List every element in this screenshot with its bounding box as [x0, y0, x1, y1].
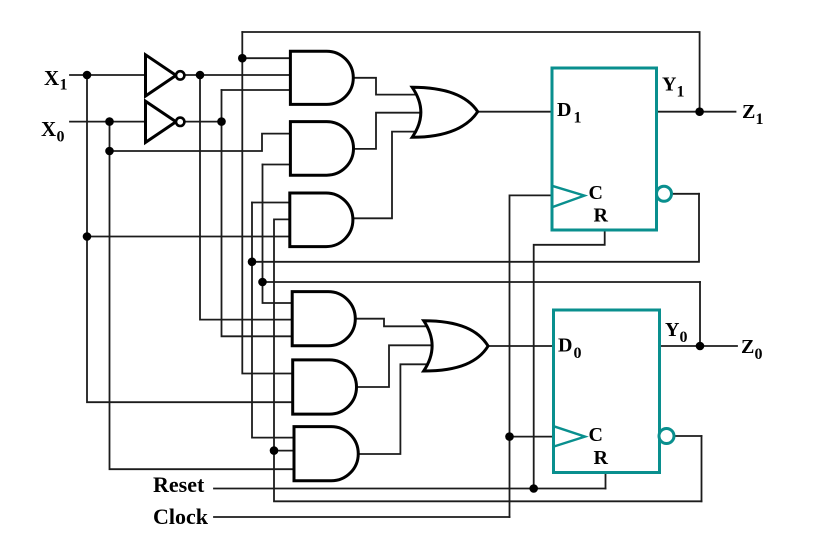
- wire: OR1 output to D1: [478, 111, 552, 113]
- wire: FF1 R connection: [534, 230, 605, 489]
- FF1 clock triangle: [552, 186, 584, 208]
- FF1 Qbar bubble: [657, 186, 672, 201]
- wire: X0 vertical column to AND6 in3: [110, 122, 295, 470]
- wire: Reset line: [214, 488, 606, 490]
- wire: FF1 Qbar bubble lead: [673, 193, 700, 195]
- wire: NOT-X0 column: [222, 90, 293, 336]
- wire: AND5 output to OR2: [357, 345, 445, 387]
- wire: X1 tap to AND3 in3: [87, 236, 290, 238]
- svg-text:0: 0: [755, 346, 763, 363]
- wire: NOT-X1 column to AND4 in2: [200, 75, 292, 320]
- junction: NOT-X0 tap: [217, 117, 226, 126]
- wire: X1 vertical column: [87, 75, 293, 402]
- wire: clock tap to FF0 C: [510, 436, 554, 438]
- junction: X1 to AND3: [83, 232, 92, 241]
- wire: AND2 output to OR1: [354, 113, 434, 149]
- wire: Y0 output to Z0: [660, 345, 738, 347]
- svg-text:X: X: [44, 66, 59, 90]
- AND gate A6: [294, 427, 358, 481]
- wire: Y0 feedback run: [263, 281, 701, 283]
- svg-text:Y: Y: [662, 74, 677, 96]
- inverter (X0): [146, 101, 177, 142]
- junction: NOT-Y1: [248, 258, 257, 267]
- junction: X1 tap: [83, 71, 92, 80]
- svg-text:C: C: [589, 424, 603, 446]
- FF0 Qbar bubble: [659, 429, 674, 444]
- wire: Y0 to AND2 in2: [263, 164, 291, 166]
- wire: X1 input lead: [70, 74, 145, 76]
- junction: clock to FF0: [505, 432, 514, 441]
- AND gate A4: [292, 292, 355, 346]
- svg-text:0: 0: [680, 329, 688, 346]
- OR gate O2: [424, 321, 488, 371]
- svg-text:0: 0: [57, 128, 65, 145]
- svg-text:Clock: Clock: [153, 504, 209, 529]
- wire: AND3 output to OR1: [353, 132, 433, 219]
- svg-text:1: 1: [60, 77, 68, 94]
- D flip-flop FF0: [554, 310, 660, 473]
- wire: FF0 Qbar bubble lead: [675, 435, 702, 437]
- wire: inverter1 output to AND1 in2: [185, 74, 291, 76]
- AND gate A1: [290, 51, 353, 104]
- AND gate A5: [293, 360, 357, 414]
- wire: AND4 output to OR2: [355, 319, 444, 327]
- wire: Y1 feedback column to AND5 in1: [242, 32, 292, 374]
- wire: AND1 output to OR1: [353, 78, 433, 95]
- wire: NOT-Y0 feedback run: [274, 219, 702, 501]
- wire: FF0 Qbar vertical: [701, 436, 703, 501]
- wire: NOT-Y1 to AND3 in1: [252, 202, 290, 204]
- wire: clock column: [510, 195, 553, 517]
- junction: Z1 node: [695, 107, 704, 116]
- junction: Y0: [258, 278, 267, 287]
- svg-text:Z: Z: [741, 336, 754, 358]
- wire: Y0 column: [263, 165, 293, 304]
- svg-text:Y: Y: [665, 319, 680, 341]
- wire: NOT-Y0 tap to AND6 in2: [274, 450, 294, 452]
- wire: Clock line: [214, 516, 510, 518]
- wire: Y1 tap to AND1 in1: [242, 57, 290, 59]
- svg-text:R: R: [594, 205, 609, 227]
- svg-text:Reset: Reset: [153, 472, 205, 497]
- svg-text:1: 1: [574, 109, 582, 126]
- svg-text:X: X: [41, 117, 56, 141]
- svg-text:1: 1: [756, 111, 764, 128]
- wire: NOT-Y1 column: [252, 203, 294, 438]
- wire: AND6 output to OR2: [358, 364, 444, 454]
- junction: X0 to AND2: [105, 147, 114, 156]
- svg-text:C: C: [589, 182, 603, 204]
- wire: NOT-Y1 feedback run: [252, 194, 699, 262]
- wire: OR2 output to D0: [488, 345, 553, 347]
- svg-text:D: D: [558, 335, 572, 357]
- junction: reset to FF1: [529, 484, 538, 493]
- wire: inverter2 output stub: [185, 121, 222, 123]
- wire: FF0 R connection: [605, 473, 607, 489]
- wire: X0 input lead: [70, 121, 145, 123]
- svg-text:Z: Z: [742, 101, 755, 123]
- wire: X0 tap to AND2 in1 jog: [110, 134, 291, 151]
- junction: Y1 to AND1: [238, 54, 247, 63]
- wire: Y1 output to Z1: [657, 111, 736, 113]
- junction: NOT-X1 tap: [196, 71, 205, 80]
- wire: NOT-X0 to AND1 in3: [222, 89, 291, 91]
- D flip-flop FF1: [552, 68, 657, 230]
- svg-text:D: D: [557, 99, 571, 121]
- AND gate A2: [290, 122, 353, 176]
- svg-text:R: R: [594, 447, 609, 469]
- AND gate A3: [290, 193, 353, 247]
- svg-text:0: 0: [574, 345, 582, 362]
- inverter (X1): [146, 55, 177, 96]
- OR gate O1: [412, 87, 478, 137]
- junction: X0 tap: [105, 117, 114, 126]
- svg-text:1: 1: [677, 84, 685, 101]
- wire: Y1 feedback top run: [242, 32, 699, 112]
- junction: NOT-Y0 to AND6: [270, 446, 279, 455]
- FF0 clock triangle: [554, 426, 586, 446]
- wire: Y0 feedback vertical: [699, 282, 701, 346]
- junction: Z0 node: [696, 342, 705, 351]
